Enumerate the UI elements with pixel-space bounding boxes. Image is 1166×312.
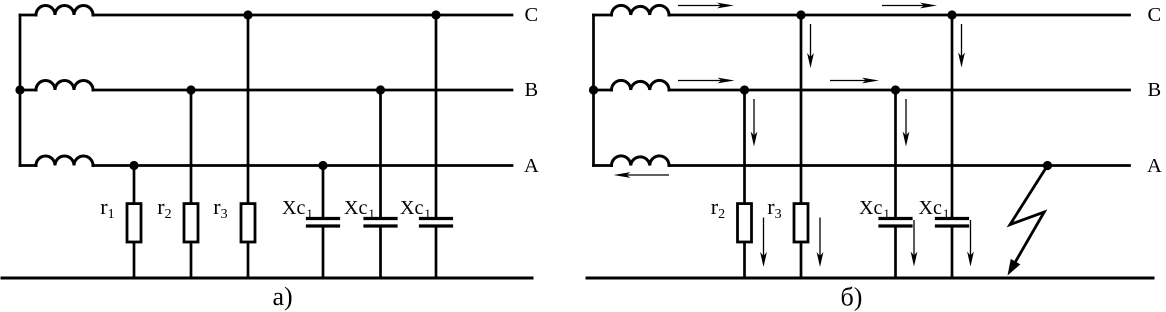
capacitor Xc1 plates (phase C, diagram b) bbox=[937, 217, 968, 220]
svg-text:Xc1: Xc1 bbox=[282, 197, 313, 221]
node: capacitor tap on phase B (diagram a) bbox=[376, 85, 385, 94]
wire: earth bus (diagram a) bbox=[2, 277, 532, 280]
current arrow down beside first capacitor (diagram b) bbox=[911, 220, 918, 267]
wire: r3 branch from phase C to earth bus (diagram a) bbox=[247, 15, 250, 278]
wire: phase B bus (diagram b) bbox=[594, 89, 612, 92]
current arrow down beside resistor r2 (diagram b) bbox=[760, 218, 767, 268]
wire: r2 branch from phase B to earth bus (diagram a) bbox=[190, 90, 193, 278]
node: r2 tap on phase B (diagram a) bbox=[186, 85, 195, 94]
current arrow down beside second capacitor (diagram b) bbox=[967, 220, 974, 267]
inductor on phase C (diagram b) bbox=[612, 5, 670, 15]
wire: r1 branch from phase A to earth bus (diagram a) bbox=[133, 166, 136, 279]
node: r1 tap on phase A (diagram a) bbox=[129, 161, 138, 170]
inductor on phase A (diagram a) bbox=[36, 156, 93, 166]
inductor on phase C (diagram a) bbox=[36, 6, 93, 16]
wire: r2 branch from phase B to earth bus (diagram b) bbox=[743, 90, 746, 278]
svg-text:A: A bbox=[1147, 155, 1162, 177]
wire: r3 branch from phase C to earth bus (diagram b) bbox=[800, 15, 803, 278]
wire: phase C bus (diagram a) bbox=[20, 14, 36, 17]
current arrow down on first capacitor branch below phase B (diagram b) bbox=[903, 99, 910, 147]
svg-text:B: B bbox=[1148, 79, 1162, 101]
svg-text:r3: r3 bbox=[213, 194, 227, 222]
current arrow left on phase A under inductor (diagram b) bbox=[614, 172, 670, 178]
inductor on phase B (diagram b) bbox=[612, 80, 670, 90]
svg-text:Xc1: Xc1 bbox=[859, 197, 890, 221]
svg-text:B: B bbox=[525, 79, 539, 101]
current arrow down on r3 branch below phase C (diagram b) bbox=[807, 24, 814, 68]
svg-text:r2: r2 bbox=[711, 194, 725, 222]
node: r2 tap on phase B (diagram b) bbox=[740, 85, 749, 94]
wire: capacitor Xc1 branch from phase A (diagram a) bbox=[322, 166, 325, 219]
svg-text:r1: r1 bbox=[100, 194, 114, 222]
wire: earth bus (diagram b) bbox=[587, 277, 1153, 280]
current arrow right on phase C after inductor (diagram b) bbox=[678, 3, 734, 9]
earth-fault lightning bolt (diagram b) bbox=[1010, 166, 1048, 266]
resistor r2 body (diagram a) bbox=[184, 204, 198, 242]
node: r3 tap on phase C (diagram b) bbox=[796, 10, 805, 19]
current arrow down on r2 branch below phase B (diagram b) bbox=[751, 99, 758, 147]
current arrow right on phase C before second tap (diagram b) bbox=[882, 3, 937, 9]
current arrow right on phase B after inductor (diagram b) bbox=[678, 78, 735, 84]
node: r3 tap on phase C (diagram a) bbox=[243, 10, 252, 19]
node: capacitor tap on phase C (diagram b) bbox=[947, 10, 956, 19]
node: junction of feeder with phase B (diagram a) bbox=[15, 85, 24, 94]
wire: phase A bus (diagram b) bbox=[594, 164, 612, 167]
svg-text:Xc1: Xc1 bbox=[919, 197, 950, 221]
capacitor Xc1 plates (phase B, diagram a) bbox=[365, 217, 396, 220]
svg-text:C: C bbox=[525, 4, 539, 26]
resistor r3 body (diagram a) bbox=[241, 204, 255, 242]
wire: capacitor Xc1 branch from phase C (diagram b) bbox=[951, 15, 954, 218]
capacitor Xc1 plates (phase C, diagram a) bbox=[421, 217, 452, 220]
node: capacitor tap on phase C (diagram a) bbox=[431, 10, 440, 19]
svg-text:C: C bbox=[1148, 4, 1162, 26]
wire: phase A bus (diagram a) bbox=[20, 164, 36, 167]
svg-text:r2: r2 bbox=[157, 194, 171, 222]
node: earth-fault point on phase A (diagram b) bbox=[1043, 161, 1052, 170]
wire: phase C bus (diagram b) bbox=[594, 14, 612, 17]
svg-text:r3: r3 bbox=[767, 194, 781, 222]
resistor r3 body (diagram b) bbox=[794, 204, 808, 242]
node: capacitor tap on phase B (diagram b) bbox=[891, 85, 900, 94]
resistor r2 body (diagram b) bbox=[738, 204, 752, 242]
capacitor Xc1 plates (phase B, diagram b) bbox=[880, 217, 911, 220]
svg-text:б): б) bbox=[841, 283, 863, 312]
inductor on phase B (diagram a) bbox=[36, 81, 93, 91]
wire: left feeder vertical (diagram b) bbox=[592, 15, 595, 166]
svg-text:а): а) bbox=[273, 282, 293, 311]
current arrow down beside resistor r3 (diagram b) bbox=[817, 218, 824, 268]
current arrow down on second capacitor branch below phase C (diagram b) bbox=[958, 24, 965, 68]
wire: phase B bus (diagram a) bbox=[20, 89, 36, 92]
wire: capacitor Xc1 branch from phase B (diagram a) bbox=[379, 90, 382, 218]
wire: capacitor Xc1 branch from phase B (diagram b) bbox=[894, 90, 897, 218]
resistor r1 body (diagram a) bbox=[127, 204, 141, 242]
node: capacitor tap on phase A (diagram a) bbox=[318, 161, 327, 170]
wire: left feeder vertical (diagram a) bbox=[19, 15, 22, 166]
current arrow right on phase B before second tap (diagram b) bbox=[830, 78, 879, 84]
svg-text:Xc1: Xc1 bbox=[344, 197, 375, 221]
wire: capacitor Xc1 branch from phase C (diagram a) bbox=[435, 15, 438, 218]
node: junction of feeder with phase B (diagram b) bbox=[589, 85, 598, 94]
inductor on phase A (diagram b) bbox=[612, 156, 670, 166]
capacitor Xc1 plates (phase A, diagram a) bbox=[308, 217, 339, 220]
svg-text:A: A bbox=[524, 155, 539, 177]
svg-text:Xc1: Xc1 bbox=[400, 197, 431, 221]
